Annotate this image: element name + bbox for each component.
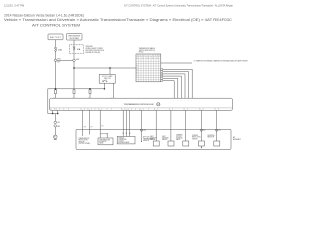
svg-text:(F502): (F502) bbox=[139, 52, 144, 54]
junction bus-battery bbox=[55, 88, 56, 89]
TCM bottom pin numbers bbox=[51, 109, 216, 111]
A/T assembly box bbox=[76, 129, 231, 149]
junction ign/pnp bbox=[73, 67, 74, 68]
wire tcm to shift solenoid a bbox=[155, 110, 157, 141]
svg-text:BATTERY: BATTERY bbox=[50, 36, 62, 39]
svg-text:E108: E108 bbox=[76, 59, 79, 61]
wire tcm to tcc solenoid 3 bbox=[129, 110, 131, 136]
wire connector2 down to TCM bbox=[73, 61, 75, 89]
svg-text:(INTELLIGENT POWER: (INTELLIGENT POWER bbox=[86, 48, 104, 50]
connector on resistor wire bbox=[216, 129, 222, 132]
connector on turbine wire bbox=[200, 129, 206, 132]
svg-text:M66: M66 bbox=[57, 126, 60, 128]
wire stop lamp out left bbox=[103, 83, 105, 89]
svg-text:P: P bbox=[137, 55, 138, 57]
PNP switch grid bbox=[136, 54, 161, 82]
svg-text:N: N bbox=[142, 55, 143, 57]
junction gnd2 bbox=[57, 113, 58, 114]
wire fuse2 down bbox=[73, 50, 75, 59]
ground wire down bbox=[54, 114, 56, 122]
svg-text:D: D bbox=[159, 55, 160, 57]
svg-text:RESISTOR: RESISTOR bbox=[208, 137, 215, 139]
svg-text:P: P bbox=[137, 65, 138, 67]
temp sensor dot bbox=[141, 141, 142, 142]
fluid temp sensor label bbox=[143, 136, 153, 142]
wire tcm to fluid temp sensor bbox=[140, 110, 142, 141]
junction bus-stoplamp bbox=[104, 88, 105, 89]
connector nubs group bbox=[123, 133, 130, 134]
svg-text:G/R: G/R bbox=[101, 126, 103, 128]
bus wire y89 bbox=[48, 88, 105, 90]
svg-text:F42: F42 bbox=[203, 130, 206, 132]
svg-text:B/Y: B/Y bbox=[91, 127, 93, 129]
svg-text:F42: F42 bbox=[219, 130, 222, 132]
connector F42/M66 bbox=[54, 121, 60, 128]
wire to PNP switch bbox=[74, 67, 136, 69]
TCM box bbox=[50, 98, 233, 110]
svg-text:SWITCH (PNP SWITCH): SWITCH (PNP SWITCH) bbox=[139, 50, 155, 52]
svg-text:1/11/23, 3:47 PM: 1/11/23, 3:47 PM bbox=[4, 3, 25, 7]
grid exit pins bbox=[161, 69, 163, 82]
PNP switch label bbox=[139, 47, 155, 53]
svg-text:IGNITION SWITCH: IGNITION SWITCH bbox=[68, 35, 81, 37]
svg-text:(OUTPUT SPEED): (OUTPUT SPEED) bbox=[79, 143, 91, 145]
svg-text:W/R: W/R bbox=[84, 127, 87, 129]
ground E bbox=[54, 135, 58, 140]
TCM top pin numbers bbox=[53, 97, 192, 102]
svg-text:SENSOR: SENSOR bbox=[192, 138, 198, 140]
junction stop lamp bbox=[109, 67, 110, 68]
dropping resistor bbox=[208, 135, 220, 146]
wire tcm to tcc solenoid 2 bbox=[125, 110, 127, 136]
junction bus-pin bbox=[89, 88, 90, 89]
IPDM E/R dashed box bbox=[70, 45, 84, 54]
svg-text:R: R bbox=[140, 55, 141, 57]
wire tcm to line pressure solenoid bbox=[99, 110, 101, 138]
fan wire 6 bbox=[163, 81, 174, 99]
wire fuse to connector bbox=[55, 51, 57, 59]
TCM ground pins bbox=[52, 110, 54, 113]
line pressure solenoid bbox=[98, 138, 113, 145]
shift solenoid A bbox=[150, 136, 159, 146]
pin connector battery wire bbox=[55, 90, 57, 98]
svg-text:F42: F42 bbox=[57, 122, 60, 124]
ignition switch box bbox=[67, 34, 83, 40]
TCM pin row line bbox=[50, 107, 233, 109]
pin connector bus stub bbox=[89, 89, 91, 98]
overrun clutch solenoid bbox=[176, 134, 189, 146]
svg-text:D: D bbox=[145, 55, 146, 57]
shift solenoid B bbox=[162, 136, 174, 146]
svg-text:D: D bbox=[137, 72, 138, 74]
wire stop lamp out right bbox=[112, 83, 114, 98]
svg-text:TO STARTING SYSTEM AND CHARGIN: TO STARTING SYSTEM AND CHARGING SYSTEM A… bbox=[194, 60, 248, 63]
svg-text:Vehicle » Transmission and Dri: Vehicle » Transmission and Drivetrain » … bbox=[4, 18, 233, 22]
connector E105/M77 bbox=[54, 59, 72, 64]
fan wire 3 bbox=[163, 74, 185, 98]
torque converter clutch solenoid bbox=[117, 136, 135, 144]
svg-text:IPDM E/R: IPDM E/R bbox=[86, 46, 94, 48]
pin connector ignition wire bbox=[73, 90, 75, 98]
svg-text:2014 Nissan-Datsun Versa Sedan: 2014 Nissan-Datsun Versa Sedan L4-1.6L (… bbox=[4, 13, 84, 17]
svg-text:SENSOR: SENSOR bbox=[143, 140, 149, 142]
svg-text:10A: 10A bbox=[58, 49, 62, 52]
turbine revolution sensor bbox=[192, 135, 204, 148]
svg-text:ENGINE ROOM) (E): ENGINE ROOM) (E) bbox=[86, 52, 101, 54]
svg-text:R: R bbox=[157, 55, 158, 57]
fan wire 4 bbox=[163, 76, 182, 98]
label line to starting system bbox=[161, 62, 192, 64]
battery B1 bbox=[48, 34, 63, 40]
wire color labels bbox=[84, 126, 104, 129]
A/T assembly label bbox=[233, 136, 241, 141]
connector E108 bbox=[73, 59, 80, 62]
svg-text:N: N bbox=[137, 70, 138, 72]
fuse F2 10A bbox=[73, 46, 81, 51]
wire tcm to turbine sensor bbox=[200, 110, 202, 141]
wire connector down to bus bbox=[55, 61, 57, 89]
junction gnd1 bbox=[52, 113, 53, 114]
svg-text:SWITCH: SWITCH bbox=[104, 78, 112, 80]
wire to ground bbox=[54, 127, 56, 135]
svg-text:SENSOR: SENSOR bbox=[79, 141, 85, 143]
stop lamp switch bbox=[99, 74, 115, 83]
branch dot line pressure bbox=[100, 133, 108, 138]
TCM bottom pin cell dividers bbox=[51, 108, 219, 111]
wire tcm to overrun solenoid bbox=[185, 110, 187, 141]
svg-text:TCM (TRANSMISSION CONTROL MODU: TCM (TRANSMISSION CONTROL MODULE) bbox=[124, 103, 154, 106]
fan wire 1 bbox=[163, 69, 192, 98]
wire tcm to revolution sensor b bbox=[89, 110, 91, 134]
fuse F1 10A bbox=[55, 47, 63, 51]
wire ignition down bbox=[73, 40, 75, 45]
svg-text:F42: F42 bbox=[157, 104, 160, 106]
wire left drop bbox=[48, 89, 58, 114]
connector on temp wire bbox=[140, 129, 146, 132]
wire battery down bbox=[55, 40, 57, 47]
svg-text:R: R bbox=[137, 67, 138, 69]
svg-text:DISTRIBUTION MODULE: DISTRIBUTION MODULE bbox=[86, 50, 105, 52]
svg-text:A/T CONTROL SYSTEM - A/T Contr: A/T CONTROL SYSTEM - A/T Control System … bbox=[124, 3, 233, 7]
svg-text:REVOLUTION: REVOLUTION bbox=[79, 140, 88, 142]
wire tcm to dropping resistor bbox=[216, 110, 218, 141]
svg-text:M77: M77 bbox=[57, 62, 60, 64]
fan wire 2 bbox=[163, 72, 189, 99]
fan wire 5 bbox=[163, 78, 178, 98]
wire tcm to tcc solenoid 1 bbox=[122, 110, 124, 136]
svg-text:A/T CONTROL SYSTEM: A/T CONTROL SYSTEM bbox=[32, 23, 80, 27]
svg-text:N: N bbox=[155, 55, 156, 57]
revolution sensor label bbox=[79, 137, 91, 145]
wire tcm to revolution sensor a bbox=[82, 110, 84, 136]
IPDM label bbox=[86, 46, 105, 54]
wire tcm to shift solenoid b bbox=[170, 110, 172, 141]
wire down to stop lamp switch bbox=[109, 68, 111, 74]
svg-text:P: P bbox=[152, 55, 153, 57]
svg-text:F502: F502 bbox=[143, 130, 146, 132]
grid cell letters bbox=[137, 55, 161, 79]
